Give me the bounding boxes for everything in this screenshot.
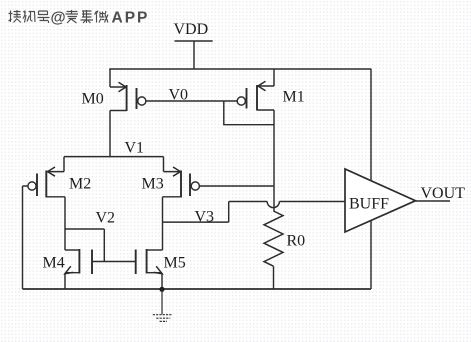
watermark 搜狐号@爱集微APP xyxy=(9,10,109,23)
resistor R0 xyxy=(264,211,283,289)
top rail wire VDD xyxy=(109,68,371,70)
transistor M0 (PMOS) xyxy=(110,69,146,157)
wire node V3 step xyxy=(163,202,268,223)
transistor M4 (NMOS) xyxy=(65,249,92,289)
op-amp buffer BUFF xyxy=(345,169,416,232)
svg-text:BUFF: BUFF xyxy=(349,196,389,213)
svg-text:M4: M4 xyxy=(43,255,65,272)
wire node V2 tap xyxy=(65,229,104,262)
svg-text:M0: M0 xyxy=(82,91,104,108)
wire M1 drain down to R0 xyxy=(273,110,275,212)
svg-text:M1: M1 xyxy=(283,89,305,106)
transistor M2 (PMOS) xyxy=(28,157,65,250)
svg-text:VDD: VDD xyxy=(174,21,209,38)
svg-text:V0: V0 xyxy=(169,87,189,104)
VDD stem wire xyxy=(193,41,195,69)
wire node V0 xyxy=(146,100,237,102)
wire M3 gate to M1 drain xyxy=(199,185,273,187)
wire M2 gate to ground rail xyxy=(23,186,28,289)
svg-text:M2: M2 xyxy=(69,176,91,193)
wire VOUT output xyxy=(416,200,451,202)
wire buffer supply from top rail xyxy=(370,69,372,181)
ground symbol xyxy=(153,289,173,321)
ground rail wire xyxy=(23,288,372,290)
svg-text:APP: APP xyxy=(112,10,150,27)
wire node V1 rail xyxy=(64,156,164,158)
svg-text:V1: V1 xyxy=(125,140,145,157)
svg-text:M5: M5 xyxy=(164,255,186,272)
svg-text:V2: V2 xyxy=(96,210,116,227)
junction dot xyxy=(159,287,164,292)
svg-text:V3: V3 xyxy=(195,209,215,226)
wire buffer input xyxy=(279,201,345,203)
transistor M5 (NMOS) xyxy=(136,249,163,289)
wire M1 gate-drain tie xyxy=(224,101,274,125)
wire hop crossing at R0 top xyxy=(267,202,279,208)
VDD supply bar xyxy=(175,40,213,42)
transistor M3 (PMOS) xyxy=(163,157,200,250)
svg-text:VOUT: VOUT xyxy=(421,185,466,202)
svg-text:R0: R0 xyxy=(287,233,306,250)
svg-text:M3: M3 xyxy=(142,176,164,193)
svg-text:@: @ xyxy=(51,10,66,27)
transistor M1 (PMOS) xyxy=(237,69,274,111)
wire M4-M5 gates xyxy=(92,261,136,263)
wire buffer bottom to ground rail xyxy=(370,220,372,289)
